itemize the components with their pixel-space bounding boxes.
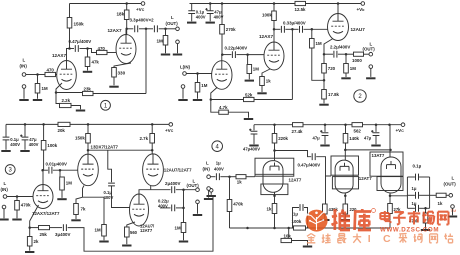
watermark text 采 xyxy=(399,234,407,243)
wire rail to 100k xyxy=(273,4,275,12)
wire 470k gnd xyxy=(16,210,18,218)
ground 0.1u xyxy=(187,22,196,24)
node rail 140k xyxy=(344,123,347,126)
wire out gnd terminal xyxy=(177,44,179,54)
ground 1k xyxy=(257,92,266,94)
wire 0.22u right xyxy=(176,207,184,209)
wire V1 cathode down xyxy=(56,83,62,93)
ground 1M out c3 xyxy=(179,241,188,243)
wire plate to 0.1u cap xyxy=(108,150,112,182)
wire tube A cathode xyxy=(274,192,276,203)
wire plate up xyxy=(125,29,127,35)
wire term gnd c3 xyxy=(3,209,5,218)
ground 47k xyxy=(83,71,92,73)
wire 0.22u left xyxy=(160,207,171,209)
node input c3 xyxy=(16,195,19,198)
wire mid branch right xyxy=(419,194,430,196)
node circled 3 xyxy=(5,165,15,175)
wire V2 cathode to 330 xyxy=(114,63,131,68)
terminal +Vcc c4 xyxy=(401,123,405,127)
wire V6 cathode xyxy=(83,186,85,198)
node 470k out xyxy=(424,207,427,210)
resistor 25k xyxy=(39,226,50,230)
resistor 1M c3a xyxy=(60,177,65,190)
capacitor 0.47u/400V c4 xyxy=(312,153,315,160)
svg-text:1k: 1k xyxy=(267,207,272,212)
svg-text:4.7k: 4.7k xyxy=(219,105,228,110)
ground 17.8k xyxy=(319,104,328,106)
wire to 47u400V xyxy=(253,125,255,131)
resistor 430k xyxy=(323,204,328,214)
terminal input ground xyxy=(22,85,26,89)
wire 720 to 17.8k xyxy=(323,73,325,90)
ground input terminal c2 xyxy=(178,99,187,101)
svg-text:12AT7: 12AT7 xyxy=(289,178,302,183)
wire 25k to 3u xyxy=(50,227,63,229)
wire 220 gnd xyxy=(344,214,346,219)
resistor 1M bootstrap xyxy=(310,39,315,49)
svg-text:L: L xyxy=(4,181,7,186)
watermark text 市 xyxy=(408,211,421,225)
wire term gnd c4 xyxy=(452,208,454,215)
tube V3 12AX7 xyxy=(212,61,232,90)
wire out node to 470k xyxy=(425,208,427,213)
svg-text:(IN): (IN) xyxy=(20,64,28,69)
svg-text:270k: 270k xyxy=(226,27,236,32)
svg-text:3μ400V: 3μ400V xyxy=(55,232,70,237)
terminal L(OUT) c2 xyxy=(369,52,373,56)
wire tube B cathode xyxy=(344,193,346,204)
node rail 47u b xyxy=(375,123,378,126)
node cathode A xyxy=(273,195,276,198)
svg-text:470k: 470k xyxy=(233,202,243,207)
watermark text 最 xyxy=(338,234,347,243)
node circled 2 xyxy=(354,90,366,102)
wire 47u a gnd xyxy=(324,136,326,145)
tube V4 12AX7 xyxy=(264,42,284,70)
wire +Vcc rail circuit 3 xyxy=(6,123,169,125)
svg-text:0.22μ/400V: 0.22μ/400V xyxy=(225,46,248,51)
tube A plate symbol xyxy=(270,163,279,171)
wire V3 cathode xyxy=(211,88,217,100)
ground 220 xyxy=(341,219,350,221)
wire 100k to plate xyxy=(273,21,275,43)
ground 430k xyxy=(320,219,329,221)
capacitor 0.22u 400V c3 xyxy=(172,205,175,212)
wire input xyxy=(26,74,38,76)
svg-text:L: L xyxy=(452,176,455,181)
wire xyxy=(292,28,298,30)
ground 470k out xyxy=(421,229,430,231)
resistor 1M input xyxy=(35,84,40,94)
terminal L(OUT) c4 xyxy=(449,194,453,198)
svg-text:1M: 1M xyxy=(95,228,101,233)
svg-text:17.8k: 17.8k xyxy=(328,92,340,97)
wire to 470k c4 xyxy=(229,177,231,200)
ground 2.2k xyxy=(76,110,85,112)
wire to 7k xyxy=(76,197,83,203)
ground 2k xyxy=(25,251,34,253)
svg-text:47μ: 47μ xyxy=(313,136,321,141)
ground aux c3 xyxy=(207,195,216,197)
wire 2.2k to ground xyxy=(71,106,81,110)
ground input terminal c3 xyxy=(0,219,9,221)
wire input c2 xyxy=(186,73,211,75)
watermark text 场 xyxy=(422,212,434,225)
wire term gnd c2 xyxy=(182,88,184,98)
svg-text:400V: 400V xyxy=(29,142,39,147)
wire 2.7k down xyxy=(151,143,153,154)
ground 47u400V xyxy=(249,145,258,147)
wire to 1M c3 xyxy=(59,170,61,177)
svg-text:2μ400V: 2μ400V xyxy=(165,181,180,186)
wire rail to 150k xyxy=(87,124,89,133)
svg-text:47μ400V: 47μ400V xyxy=(243,147,260,152)
tube V1 12AX7 xyxy=(57,61,77,90)
svg-text:1M: 1M xyxy=(175,226,181,231)
svg-text:12AX7/12AT7: 12AX7/12AT7 xyxy=(32,211,60,216)
capacitor 0.33u a xyxy=(281,26,284,33)
svg-text:470k: 470k xyxy=(21,203,31,208)
ground 1M c2 xyxy=(193,99,202,101)
svg-text:140k: 140k xyxy=(349,136,359,141)
wire 1k to tube A xyxy=(246,176,255,178)
node cathode Va xyxy=(28,226,31,229)
tube V7 xyxy=(143,154,164,186)
node cathode C xyxy=(389,195,392,198)
capacitor 0.22u/400V xyxy=(232,51,235,58)
ground 560 xyxy=(122,245,131,247)
ground 1M c3a xyxy=(57,198,66,200)
resistor 150k xyxy=(67,18,72,29)
node input c2 xyxy=(196,72,199,75)
node output xyxy=(164,28,167,31)
node cathode V3 xyxy=(210,98,213,101)
svg-text:400V: 400V xyxy=(214,167,224,172)
resistor 52k xyxy=(244,97,255,101)
wire Va plate up xyxy=(42,170,44,184)
svg-text:0.47μ/400V: 0.47μ/400V xyxy=(69,39,92,44)
wire out node to 1M xyxy=(165,29,167,36)
terminal gnd c2 xyxy=(181,85,185,89)
wire +V rail circuit 2 xyxy=(190,3,296,5)
capacitor 1u out a xyxy=(416,192,419,199)
watermark text 电 xyxy=(380,211,390,223)
resistor 1000 xyxy=(354,52,364,56)
tube B lower frame xyxy=(332,177,358,189)
wire aux term xyxy=(210,192,212,195)
watermark text 购 xyxy=(414,234,422,243)
terminal gnd c3 xyxy=(2,205,6,209)
node cathode V1 xyxy=(55,91,58,94)
wire 1M gnd xyxy=(61,190,63,198)
wire jog to 470 xyxy=(88,49,97,53)
wire +Vcc rail circuit 1 xyxy=(70,3,142,5)
node rail 47u a xyxy=(324,123,327,126)
resistor 1M output xyxy=(163,36,168,46)
resistor 1M out c2 xyxy=(344,64,349,74)
capacitor 1u400V input xyxy=(216,173,219,180)
resistor 470k c4 xyxy=(227,200,232,212)
resistor 7k xyxy=(74,204,79,215)
svg-text:330: 330 xyxy=(118,71,126,76)
wire 1M to cathode node xyxy=(312,48,324,80)
wire cathode to 23k xyxy=(56,92,83,94)
wire cap to terminal xyxy=(176,189,196,191)
svg-text:100k: 100k xyxy=(47,143,57,148)
capacitor 0.01u400V xyxy=(49,167,52,174)
ground 47u a xyxy=(320,145,329,147)
wire 1k to terminal xyxy=(446,194,449,196)
node rail/18k xyxy=(125,2,128,5)
wire tube B plate xyxy=(344,150,346,160)
wire 1u fb right xyxy=(304,208,308,229)
ground 470k xyxy=(12,219,21,221)
node cathode V5 xyxy=(323,53,326,56)
svg-text:100k: 100k xyxy=(262,13,272,18)
wire to 47u a xyxy=(324,125,326,132)
wire rail right xyxy=(306,3,362,5)
watermark logo pattern xyxy=(307,210,326,230)
svg-text:1μ: 1μ xyxy=(412,201,417,206)
tube C frame 13AT7 xyxy=(370,152,403,176)
svg-text:25k: 25k xyxy=(40,232,48,237)
resistor 100k feedback xyxy=(294,226,306,230)
resistor 27.4k xyxy=(293,123,304,127)
wire V3 plate to X xyxy=(221,55,223,61)
wire to 0.1u c3 xyxy=(5,124,7,136)
wire input c3 xyxy=(7,196,33,198)
svg-text:2k: 2k xyxy=(34,239,39,244)
wire to 47u c3 xyxy=(24,124,26,136)
capacitor 1u out b xyxy=(416,205,419,212)
svg-text:1μ: 1μ xyxy=(293,212,298,217)
node rail tube C xyxy=(388,123,391,126)
svg-text:+VC: +VC xyxy=(136,7,145,12)
resistor 220 xyxy=(343,204,348,214)
wire to 10k xyxy=(281,228,289,241)
wire 7k gnd xyxy=(75,215,77,220)
wire V8 cathode xyxy=(127,222,135,227)
svg-text:I: I xyxy=(368,233,371,245)
wire Va cathode xyxy=(30,205,39,228)
node out c2 xyxy=(345,53,348,56)
wire 270k to node X xyxy=(221,34,223,55)
wire 52k to feedback xyxy=(254,99,292,101)
watermark text 大 xyxy=(353,234,361,243)
resistor 2.7k xyxy=(150,134,155,144)
ground 1M xyxy=(33,99,42,101)
svg-text:1k: 1k xyxy=(266,79,271,84)
svg-text:1M: 1M xyxy=(157,39,164,44)
wire to 1M out xyxy=(345,54,347,63)
resistor 140k xyxy=(343,134,348,144)
terminal out gnd c2 xyxy=(369,65,373,69)
wire top branch right xyxy=(419,176,430,178)
resistor 47k xyxy=(85,57,90,67)
wire loop left rail xyxy=(406,177,408,208)
capacitor 2.2u/400V xyxy=(334,51,337,58)
wire xyxy=(285,28,292,30)
wire to out cap xyxy=(324,53,333,55)
node rail 270k xyxy=(221,2,224,5)
resistor 562 xyxy=(352,123,363,127)
svg-text:+VC: +VC xyxy=(165,128,174,133)
wire plate bus xyxy=(88,149,152,151)
node rail 47u xyxy=(209,2,212,5)
terminal +Vcc xyxy=(141,2,145,6)
wire 150k to plate node xyxy=(69,28,71,49)
svg-text:562: 562 xyxy=(354,129,362,134)
wire bottom rail c4 left xyxy=(230,227,294,229)
ground 0.1u c3 xyxy=(1,150,10,152)
svg-text:(IN): (IN) xyxy=(1,187,9,192)
resistor 100k xyxy=(272,11,277,21)
resistor 470k xyxy=(15,201,20,211)
terminal gnd c4 xyxy=(207,187,211,191)
ground input c4 xyxy=(204,198,213,200)
svg-text:1M: 1M xyxy=(253,67,259,72)
wire 1M to gnd xyxy=(248,74,250,80)
ground 330 xyxy=(109,86,118,88)
svg-text:52k: 52k xyxy=(245,93,253,98)
tube A frame 12AT7 xyxy=(255,158,294,176)
wire to 25k xyxy=(30,227,39,229)
resistor 20k xyxy=(58,122,70,126)
terminal out gnd c3 xyxy=(196,200,200,204)
terminal L(IN) c4 xyxy=(207,175,211,179)
capacitor 47u 400V c3 xyxy=(20,135,28,140)
ground 7k xyxy=(71,219,80,221)
node 0.22u xyxy=(182,207,185,210)
wire rail to 100k c3 xyxy=(43,124,45,140)
capacitor 2u400V xyxy=(172,186,175,193)
resistor 27k xyxy=(388,204,393,214)
node plate A xyxy=(273,149,276,152)
wire 47u gnd xyxy=(24,140,26,150)
wire to 2u cap xyxy=(151,189,171,191)
svg-text:47k: 47k xyxy=(92,60,100,65)
wire 47u gnd xyxy=(253,134,255,144)
watermark logo circle xyxy=(306,210,328,232)
wire cap to out node xyxy=(159,28,166,30)
wire 150k top lead xyxy=(69,4,71,18)
svg-text:0.33μ/400V: 0.33μ/400V xyxy=(283,21,306,26)
wire to 0.01u xyxy=(43,169,48,171)
wire node to 1M xyxy=(37,75,39,84)
svg-text:12AX7: 12AX7 xyxy=(259,34,273,39)
wire V4 cathode xyxy=(262,69,270,77)
node cathode B xyxy=(344,195,347,198)
resistor 10k xyxy=(281,238,292,242)
wire tube A plate xyxy=(274,151,276,161)
node out c3 xyxy=(182,188,185,191)
svg-text:1k: 1k xyxy=(438,201,443,206)
wire 470 to grid V1 xyxy=(56,74,58,76)
wire 0.1u to gnd xyxy=(191,14,193,22)
terminal out gnd c4 xyxy=(451,205,455,209)
svg-text:470: 470 xyxy=(47,68,55,73)
wire Y to V4 grid xyxy=(248,54,264,56)
resistor 560 xyxy=(125,227,130,237)
wire term to gnd xyxy=(197,204,199,214)
terminal +Vcc c3 xyxy=(169,123,173,127)
capacitor 3.3u400V b xyxy=(154,25,157,32)
wire 1M gnd xyxy=(197,92,199,99)
wire bottom rail c4 right xyxy=(306,227,391,229)
node circled 4 xyxy=(212,141,223,152)
wire rail to 140k xyxy=(345,125,347,134)
watermark text 网 xyxy=(438,212,449,225)
tube A grid line xyxy=(255,173,294,175)
ground 1M out xyxy=(161,54,170,56)
svg-text:12AU7: 12AU7 xyxy=(351,27,366,32)
wire feedback bottom c3 xyxy=(68,196,213,251)
wire 4.7k to gnd xyxy=(228,112,248,118)
wire to cap b xyxy=(146,28,153,30)
ground out terminal c3 xyxy=(193,214,202,216)
capacitor 47u400V c4 xyxy=(249,129,257,134)
svg-text:TM: TM xyxy=(451,208,457,213)
node V4 plate xyxy=(273,28,276,31)
wire 1M gnd xyxy=(103,236,105,240)
wire 23k to feedback xyxy=(93,93,146,95)
svg-text:23k: 23k xyxy=(84,87,92,92)
tube A lower frame xyxy=(261,184,288,195)
resistor 470 grid stopper xyxy=(97,50,108,54)
wire cap to node Y xyxy=(236,54,247,56)
wire grid B to 430k xyxy=(325,176,327,204)
wire cap to node xyxy=(139,28,146,30)
node mid 0.33u xyxy=(291,28,294,31)
terminal out ground xyxy=(176,40,180,44)
wire to 1k out xyxy=(430,194,437,196)
wire 140k to plate B xyxy=(345,143,347,150)
node Y grid V4 xyxy=(246,53,249,56)
svg-text:47μ: 47μ xyxy=(364,136,372,141)
node plate B xyxy=(344,149,347,152)
svg-text:+VC: +VC xyxy=(396,128,405,133)
capacitor 0.1u 400V coupling xyxy=(108,183,115,186)
tube V2 12AX7 xyxy=(116,35,136,64)
wire to 470 input R xyxy=(38,74,46,76)
wire cathode to 720 xyxy=(323,54,325,63)
svg-text:1M: 1M xyxy=(350,66,356,71)
resistor 1M c3b xyxy=(102,225,107,237)
capacitor 3u400V xyxy=(63,224,66,231)
wire cathode to 2k xyxy=(29,228,31,237)
watermark text 站 xyxy=(444,234,453,243)
resistor 2k xyxy=(27,237,32,247)
node grid leak c4 xyxy=(228,175,231,178)
wire 470 to V2 grid xyxy=(107,52,116,54)
wire to out terminal xyxy=(166,28,176,30)
wire 0.1u to V8 grid xyxy=(112,186,130,208)
node grid V5 xyxy=(311,28,314,31)
ground 47u xyxy=(206,22,215,24)
svg-text:1k: 1k xyxy=(237,180,242,185)
svg-text:12AU7/12AT7: 12AU7/12AT7 xyxy=(164,168,192,173)
wire loop right rail xyxy=(429,177,431,208)
svg-text:150k: 150k xyxy=(74,22,85,27)
tube C body 13AT7 xyxy=(381,157,401,193)
svg-text:1μ: 1μ xyxy=(412,186,417,191)
wire cathode to 2.2k xyxy=(56,93,60,104)
svg-text:C: C xyxy=(383,233,391,245)
wire 220k to plate A xyxy=(274,143,276,151)
resistor 18k xyxy=(124,10,129,20)
terminal +Vb xyxy=(361,2,365,6)
